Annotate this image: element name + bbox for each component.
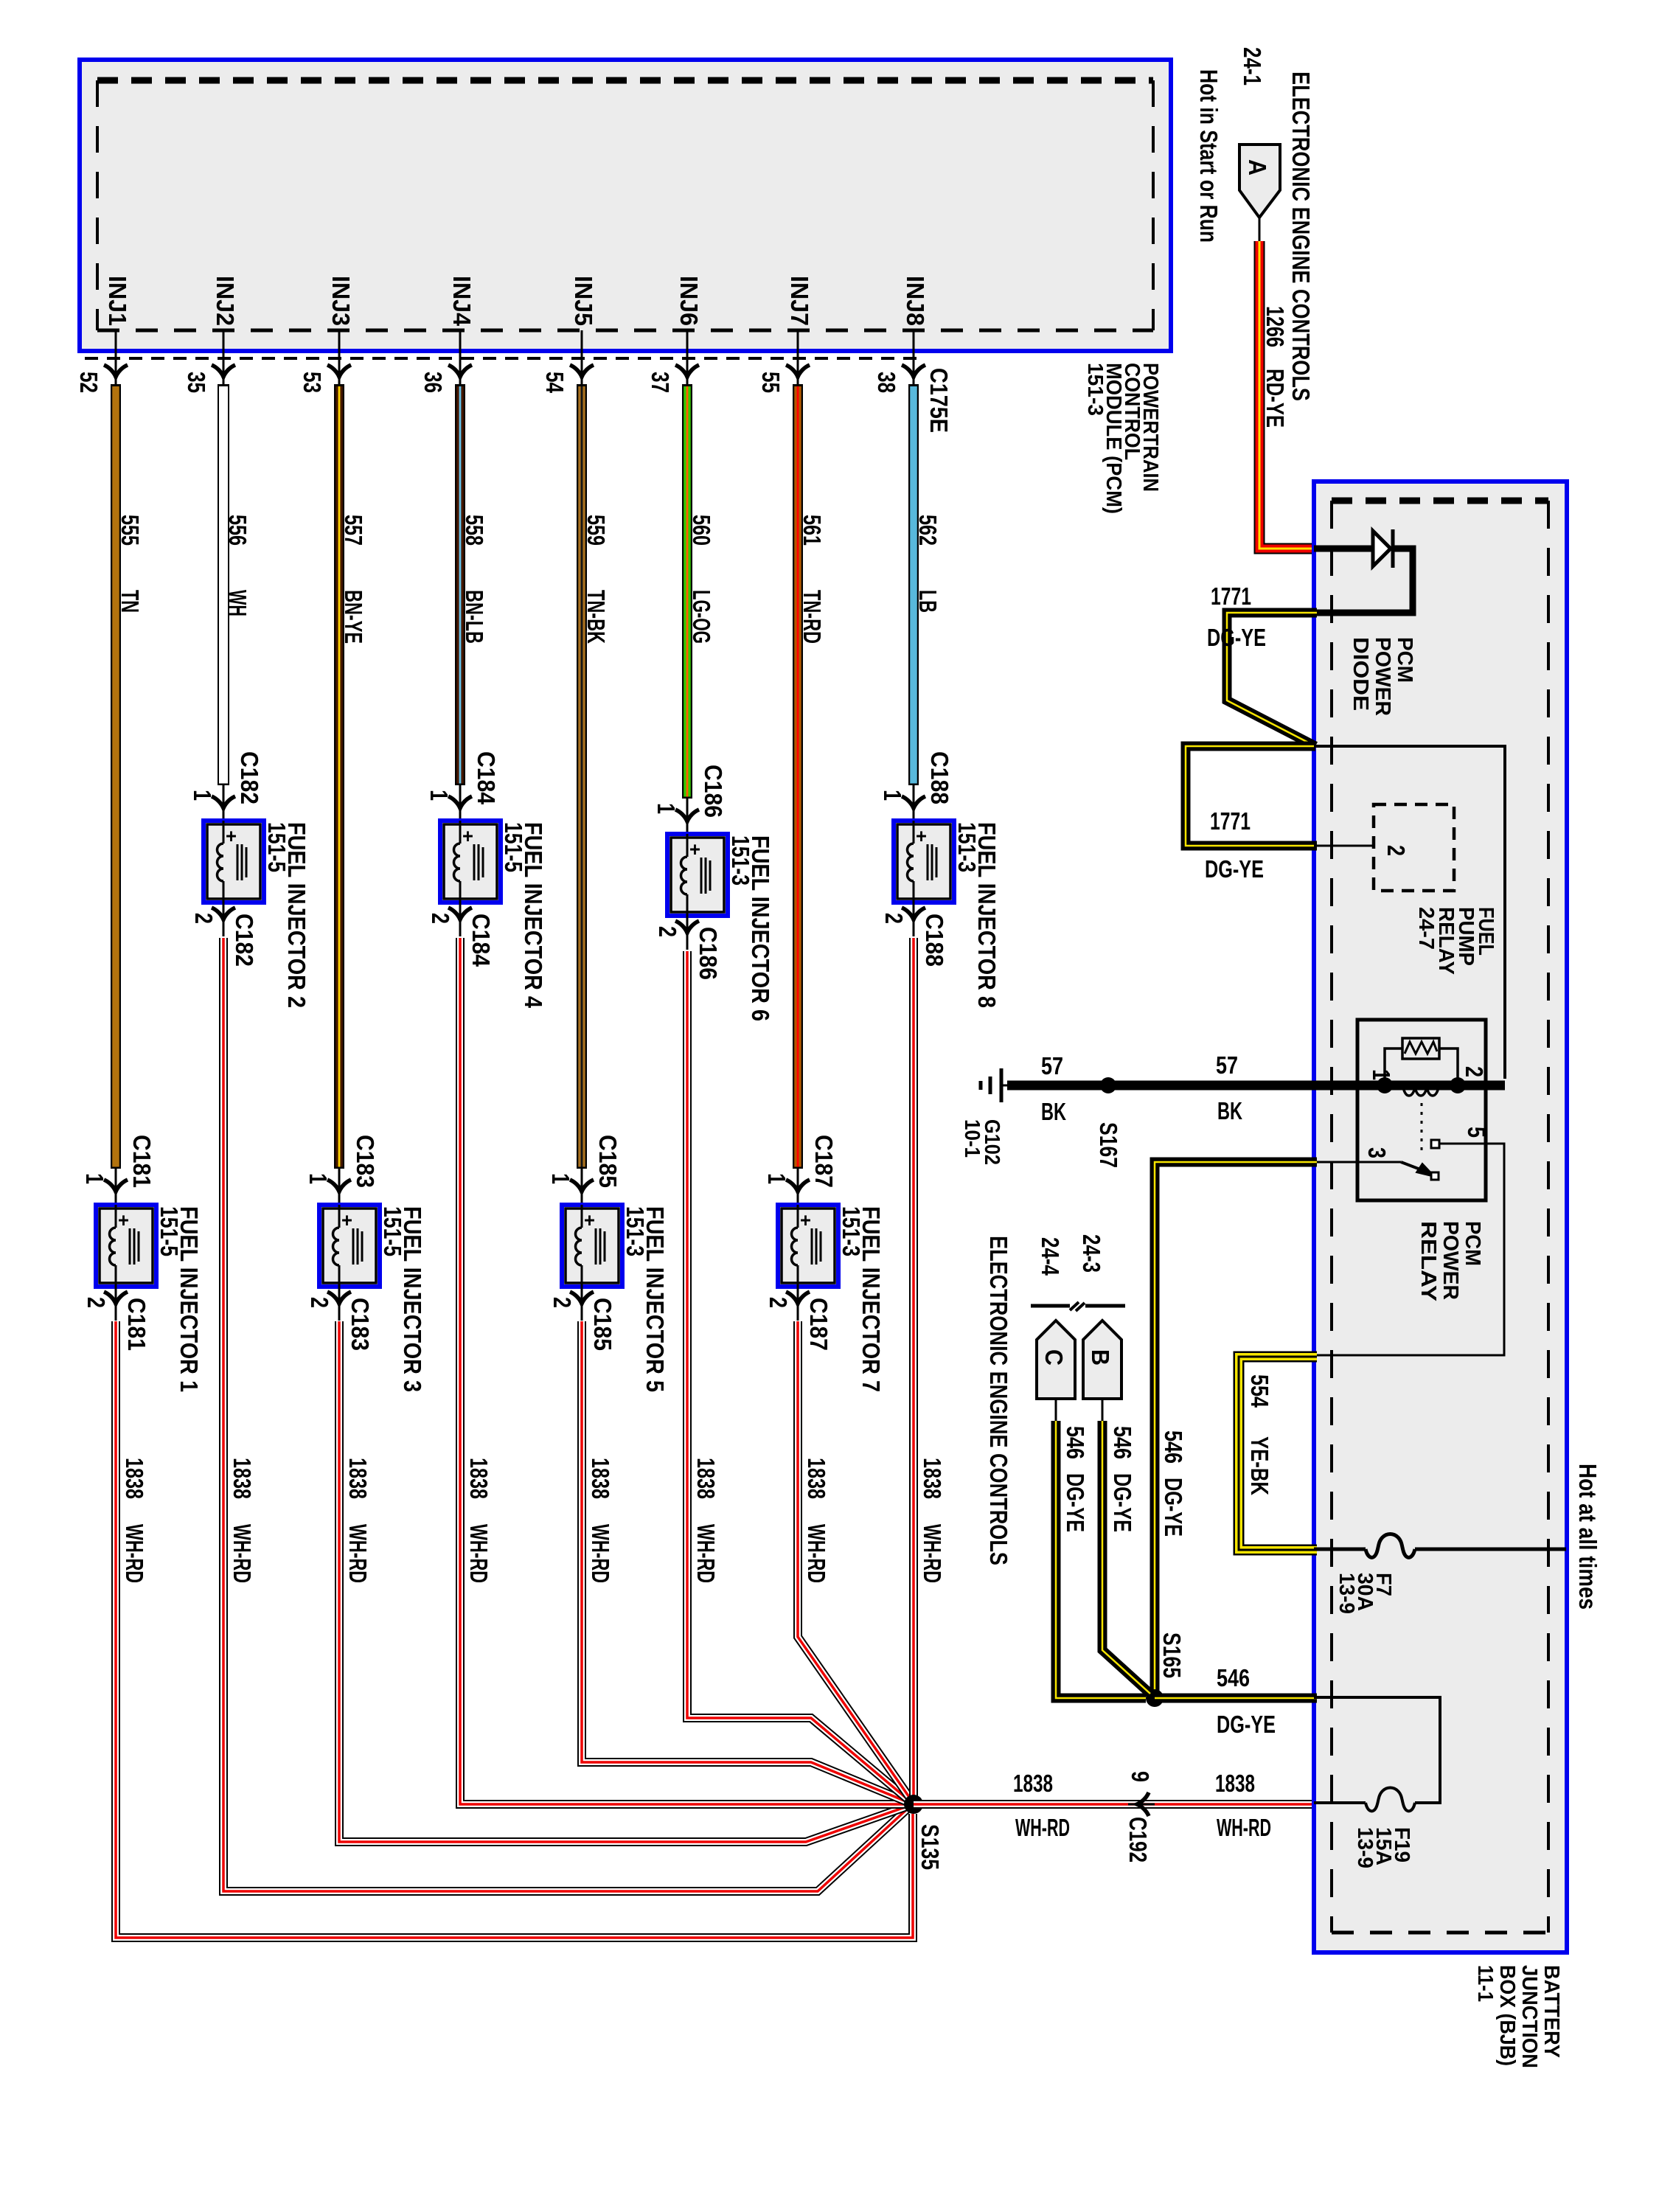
- PCM pin 36 stub line and connector arrow C175E pin 36: [459, 330, 462, 386]
- connector C188 pin 1 arrow: [913, 785, 915, 821]
- svg-text:546: 546: [1062, 1426, 1089, 1459]
- svg-text:JUNCTION: JUNCTION: [1517, 1965, 1541, 2068]
- wire 1838 WH-RD (fuel injector 4 return to splice S135): [460, 938, 908, 1804]
- svg-text:C182: C182: [236, 751, 263, 804]
- svg-text:52: 52: [75, 372, 102, 393]
- PCM power relay box: [1357, 1020, 1486, 1200]
- svg-text:1838: 1838: [1013, 1770, 1053, 1797]
- svg-text:151-3: 151-3: [953, 822, 981, 872]
- svg-text:POWER: POWER: [1371, 637, 1394, 716]
- svg-text:DIODE: DIODE: [1349, 637, 1372, 711]
- svg-text:C: C: [1040, 1349, 1068, 1366]
- svg-text:+: +: [916, 825, 927, 847]
- svg-text:151-3: 151-3: [1083, 363, 1107, 416]
- svg-text:C182: C182: [231, 914, 258, 967]
- svg-text:C185: C185: [589, 1298, 616, 1351]
- svg-text:151-3: 151-3: [838, 1206, 865, 1256]
- fuse F7 30A: [1314, 1548, 1366, 1551]
- splice S165: [1146, 1689, 1164, 1707]
- svg-text:5: 5: [1463, 1127, 1490, 1138]
- PCM pin 52 stub line and connector arrow C175E pin 52: [115, 330, 117, 386]
- wire 560 LG-OG (PCM INJ6 to fuel injector 6): [682, 384, 692, 799]
- svg-text:151-5: 151-5: [379, 1206, 406, 1256]
- wire 558 BN-LB (PCM INJ4 to fuel injector 4): [455, 384, 465, 785]
- wire 546 DG-YE (relay pin 3 to splice S165): [1155, 1162, 1317, 1698]
- fuel injector 4 (coil symbol): [440, 821, 501, 902]
- wire 1838 WH-RD (splice S135 to BJB fuse F19 via C192): [914, 1800, 1314, 1809]
- svg-text:C183: C183: [347, 1298, 374, 1351]
- PCM module box (POWERTRAIN CONTROL MODULE): [80, 60, 1171, 351]
- svg-text:2: 2: [83, 1297, 110, 1308]
- svg-text:1: 1: [189, 790, 216, 801]
- svg-text:1: 1: [425, 790, 453, 801]
- svg-text:9: 9: [1127, 1771, 1154, 1782]
- fuel pump relay (reference, dashed): [1374, 804, 1454, 891]
- svg-text:C187: C187: [810, 1135, 838, 1188]
- svg-text:S165: S165: [1158, 1632, 1186, 1678]
- fuel injector 3 (coil symbol): [319, 1205, 380, 1287]
- svg-text:560: 560: [688, 515, 715, 546]
- connector C184 pin 2 arrow: [459, 902, 462, 936]
- relay pin 5 wire to 554 feed: [1317, 1144, 1504, 1355]
- PCM pin 37 stub line and connector arrow C175E pin 37: [686, 330, 689, 386]
- svg-text:C175E: C175E: [925, 368, 953, 433]
- svg-text:TN: TN: [116, 590, 144, 613]
- svg-text:559: 559: [582, 515, 610, 546]
- ground G102: [1000, 1068, 1004, 1102]
- connector C182 pin 1 arrow: [223, 785, 225, 821]
- svg-text:WH-RD: WH-RD: [121, 1524, 148, 1583]
- fuel injector 1 (coil symbol): [96, 1205, 156, 1287]
- svg-text:546: 546: [1217, 1664, 1250, 1691]
- wire 556 WH (PCM INJ2 to fuel injector 2): [218, 384, 229, 785]
- wire 1266 RD-YE (connector A to PCM power diode): [1259, 241, 1317, 549]
- svg-text:562: 562: [914, 515, 942, 546]
- svg-text:1: 1: [305, 1173, 332, 1184]
- svg-text:2: 2: [765, 1297, 792, 1308]
- connector C185 pin 2 arrow: [581, 1287, 583, 1321]
- fuel pump relay pin 2 line: [1314, 845, 1374, 847]
- svg-text:+: +: [118, 1209, 129, 1231]
- svg-text:POWER: POWER: [1439, 1221, 1462, 1300]
- svg-text:PCM: PCM: [1393, 637, 1416, 683]
- svg-text:556: 556: [224, 515, 251, 546]
- svg-text:BK: BK: [1217, 1097, 1242, 1124]
- svg-text:555: 555: [116, 515, 144, 546]
- svg-text:INJ3: INJ3: [327, 276, 355, 326]
- svg-text:1838: 1838: [121, 1458, 148, 1499]
- wire 1838 WH-RD (fuel injector 2 return to splice S135): [223, 938, 908, 1891]
- connector C187 pin 2 arrow: [797, 1287, 799, 1321]
- svg-text:C184: C184: [473, 751, 500, 805]
- wire 1838 WH-RD (fuel injector 6 return to splice S135): [687, 951, 908, 1800]
- svg-text:3: 3: [1363, 1147, 1391, 1158]
- svg-text:INJ7: INJ7: [786, 276, 813, 326]
- PCM power relay coil junction pin 1 dot: [1377, 1077, 1393, 1093]
- svg-text:54: 54: [541, 372, 568, 394]
- svg-text:BATTERY: BATTERY: [1540, 1965, 1563, 2058]
- svg-text:WH-RD: WH-RD: [587, 1524, 614, 1583]
- wire 546 DG-YE (splice S165 to fuse F19): [1155, 1694, 1317, 1703]
- svg-text:ELECTRONIC ENGINE CONTROLS: ELECTRONIC ENGINE CONTROLS: [1287, 72, 1315, 401]
- svg-text:557: 557: [340, 515, 367, 546]
- svg-text:DG-YE: DG-YE: [1207, 624, 1266, 651]
- svg-text:TN-BK: TN-BK: [582, 590, 610, 644]
- svg-text:WH-RD: WH-RD: [803, 1524, 830, 1583]
- wire 1771 DG-YE (diode to BJB, first loop): [1227, 613, 1317, 746]
- wire 555 TN (PCM INJ1 to fuel injector 1): [111, 384, 121, 1169]
- svg-text:WH-RD: WH-RD: [229, 1524, 256, 1583]
- svg-text:ELECTRONIC ENGINE CONTROLS: ELECTRONIC ENGINE CONTROLS: [985, 1236, 1012, 1565]
- svg-text:55: 55: [757, 372, 785, 393]
- fuel injector 8 (coil symbol): [894, 821, 954, 902]
- relay switch pin 5 contact: [1431, 1140, 1439, 1148]
- svg-text:RELAY: RELAY: [1416, 1221, 1440, 1301]
- wire 557 BN-YE (PCM INJ3 to fuel injector 3): [334, 384, 344, 1169]
- svg-text:13-9: 13-9: [1353, 1827, 1377, 1868]
- svg-text:1266: 1266: [1262, 306, 1289, 347]
- svg-text:151-3: 151-3: [622, 1206, 649, 1256]
- svg-text:Hot at all times: Hot at all times: [1574, 1464, 1601, 1610]
- svg-text:24-1: 24-1: [1239, 47, 1266, 86]
- svg-text:151-5: 151-5: [156, 1206, 183, 1256]
- svg-text:1838: 1838: [344, 1458, 372, 1499]
- svg-text:INJ1: INJ1: [104, 276, 131, 326]
- fuel injector 5 (coil symbol): [562, 1205, 622, 1287]
- svg-text:24-4: 24-4: [1037, 1237, 1064, 1276]
- PCM pin 35 stub line and connector arrow C175E pin 35: [223, 330, 225, 386]
- svg-text:A: A: [1244, 159, 1271, 175]
- svg-text:DG-YE: DG-YE: [1109, 1473, 1136, 1532]
- svg-text:DG-YE: DG-YE: [1062, 1473, 1089, 1532]
- svg-text:RD-YE: RD-YE: [1262, 369, 1289, 428]
- connector C187 pin 1 arrow: [797, 1169, 799, 1205]
- PCM pin 55 stub line and connector arrow C175E pin 55: [797, 330, 799, 386]
- svg-text:1: 1: [81, 1173, 108, 1184]
- svg-text:+: +: [462, 825, 473, 847]
- wire 1771 DG-YE (second loop to fuel pump relay): [1186, 746, 1317, 846]
- svg-text:+: +: [584, 1209, 595, 1231]
- PCM pin 53 stub line and connector arrow C175E pin 53: [338, 330, 341, 386]
- svg-text:BN-YE: BN-YE: [340, 590, 367, 644]
- svg-text:+: +: [226, 825, 237, 847]
- svg-text:35: 35: [183, 372, 210, 393]
- svg-text:1771: 1771: [1211, 582, 1251, 610]
- svg-text:1838: 1838: [587, 1458, 614, 1499]
- svg-text:1: 1: [879, 790, 906, 801]
- svg-text:C187: C187: [805, 1298, 832, 1351]
- fuel injector 7 (coil symbol): [778, 1205, 838, 1287]
- svg-text:C186: C186: [700, 765, 727, 818]
- wire stub from connector A: [1259, 218, 1261, 241]
- bracket over connectors B and C: [1031, 1304, 1070, 1308]
- svg-text:1838: 1838: [465, 1458, 493, 1499]
- wire 1838 WH-RD (fuel injector 5 return to splice S135): [582, 1321, 908, 1802]
- svg-text:11-1: 11-1: [1473, 1965, 1497, 2002]
- svg-text:C188: C188: [926, 751, 953, 804]
- svg-text:24-3: 24-3: [1078, 1234, 1105, 1273]
- svg-text:DG-YE: DG-YE: [1160, 1478, 1187, 1537]
- connector C181 pin 2 arrow: [115, 1287, 117, 1321]
- svg-text:WH-RD: WH-RD: [1015, 1814, 1070, 1841]
- svg-text:2: 2: [190, 913, 218, 924]
- relay switch arm (pin 3): [1314, 1161, 1401, 1164]
- svg-text:561: 561: [799, 515, 826, 546]
- svg-text:C185: C185: [594, 1135, 622, 1188]
- svg-text:10-1: 10-1: [960, 1119, 984, 1158]
- PCM power diode D1: [1314, 546, 1373, 552]
- splice S167: [1100, 1077, 1116, 1093]
- svg-text:1838: 1838: [803, 1458, 830, 1499]
- svg-text:13-9: 13-9: [1335, 1573, 1358, 1614]
- svg-text:WH: WH: [224, 590, 251, 616]
- svg-text:BOX (BJB): BOX (BJB): [1495, 1965, 1519, 2066]
- connector C181 pin 1 arrow: [115, 1169, 117, 1205]
- connector A (from Electronic Engine Controls): [1239, 145, 1280, 218]
- PCM pin 54 stub line and connector arrow C175E pin 54: [581, 330, 583, 386]
- svg-text:WH-RD: WH-RD: [465, 1524, 493, 1583]
- wire 1838 WH-RD (fuel injector 8 return to splice S135): [909, 938, 918, 1804]
- svg-text:1838: 1838: [229, 1458, 256, 1499]
- svg-text:INJ2: INJ2: [212, 276, 239, 326]
- svg-text:1: 1: [763, 1173, 790, 1184]
- PCM power relay coil (inductor): [1403, 1085, 1439, 1096]
- svg-text:1838: 1838: [919, 1458, 946, 1499]
- wire inside BJB from diode return to PCM power relay coil: [1314, 746, 1505, 1079]
- wire 57 BK (ground G102 to PCM power relay coil): [1007, 1081, 1505, 1091]
- svg-text:C188: C188: [921, 914, 948, 967]
- inline connector C192 arrow: [1128, 1804, 1155, 1806]
- connector C186 pin 2 arrow: [686, 916, 689, 950]
- svg-text:LB: LB: [914, 590, 942, 613]
- svg-text:24-7: 24-7: [1414, 907, 1438, 950]
- wire 562 LB (PCM INJ8 to fuel injector 8): [908, 384, 919, 785]
- svg-text:36: 36: [420, 372, 447, 393]
- svg-text:546: 546: [1109, 1426, 1136, 1459]
- wire 1838 WH-RD (fuel injector 1 return to splice S135): [116, 1321, 913, 1938]
- svg-text:2: 2: [1382, 845, 1410, 856]
- relay actuation dotted link: [1421, 1103, 1423, 1155]
- PCM power relay coil junction pin 2 dot: [1450, 1077, 1466, 1093]
- connector C182 pin 2 arrow: [223, 902, 225, 936]
- svg-text:1: 1: [1368, 1069, 1395, 1080]
- svg-text:1838: 1838: [692, 1458, 720, 1499]
- PCM pin 38 stub line and connector arrow C175E pin 38: [913, 330, 915, 386]
- svg-text:PCM: PCM: [1461, 1221, 1484, 1266]
- svg-text:2: 2: [549, 1297, 576, 1308]
- svg-text:BK: BK: [1041, 1098, 1066, 1125]
- svg-text:1771: 1771: [1210, 807, 1251, 835]
- svg-text:C181: C181: [123, 1298, 150, 1351]
- wire 561 TN-RD (PCM INJ7 to fuel injector 7): [793, 384, 803, 1169]
- svg-text:BN-LB: BN-LB: [461, 590, 488, 644]
- svg-text:WH-RD: WH-RD: [919, 1524, 946, 1583]
- wire 554 YE-BK (relay pin 5 to fuse F7): [1239, 1357, 1317, 1550]
- PCM power relay suppression resistor: [1402, 1038, 1439, 1059]
- svg-text:WH-RD: WH-RD: [1217, 1814, 1271, 1841]
- wire 1838 WH-RD (fuel injector 3 return to splice S135): [339, 1321, 907, 1842]
- svg-text:2: 2: [654, 926, 681, 937]
- svg-text:57: 57: [1216, 1051, 1238, 1079]
- svg-text:2: 2: [306, 1297, 333, 1308]
- svg-text:INJ5: INJ5: [570, 276, 597, 326]
- connector C186 pin 1 arrow: [686, 799, 689, 834]
- Battery Junction Box (BJB): [1314, 481, 1567, 1952]
- svg-text:1: 1: [653, 803, 680, 814]
- svg-text:558: 558: [461, 515, 488, 546]
- connector C (to Electronic Engine Controls): [1037, 1321, 1075, 1399]
- svg-text:C183: C183: [352, 1135, 379, 1188]
- svg-text:2: 2: [1461, 1066, 1488, 1077]
- svg-text:TN-RD: TN-RD: [799, 590, 826, 644]
- svg-text:C181: C181: [128, 1135, 156, 1188]
- svg-text:+: +: [800, 1209, 811, 1231]
- svg-text:546: 546: [1160, 1430, 1187, 1464]
- svg-text:WH-RD: WH-RD: [344, 1524, 372, 1583]
- svg-text:2: 2: [427, 913, 454, 924]
- PCM connector C175E dashed line: [85, 357, 918, 360]
- svg-text:Hot in Start or Run: Hot in Start or Run: [1195, 69, 1222, 243]
- svg-text:+: +: [341, 1209, 352, 1231]
- wire 546 DG-YE (connector C to splice S165): [1056, 1421, 1146, 1698]
- fuel injector 2 (coil symbol): [204, 821, 264, 902]
- wire 546 DG-YE (connector B to splice S165): [1102, 1421, 1150, 1694]
- svg-text:2: 2: [880, 913, 908, 924]
- connector C184 pin 1 arrow: [459, 785, 462, 821]
- svg-text:53: 53: [299, 372, 326, 393]
- svg-text:37: 37: [647, 372, 674, 393]
- connector C183 pin 2 arrow: [338, 1287, 341, 1321]
- svg-text:DG-YE: DG-YE: [1217, 1711, 1276, 1738]
- svg-text:+: +: [689, 838, 700, 860]
- svg-text:C192: C192: [1124, 1817, 1152, 1863]
- svg-text:YE-BK: YE-BK: [1246, 1436, 1273, 1495]
- svg-text:INJ8: INJ8: [902, 276, 929, 326]
- svg-text:554: 554: [1246, 1374, 1273, 1408]
- svg-text:151-5: 151-5: [500, 822, 527, 872]
- fuse F19 15A: [1314, 1697, 1440, 1803]
- svg-text:DG-YE: DG-YE: [1205, 855, 1264, 883]
- wire 1838 WH-RD (fuel injector 7 return to splice S135): [798, 1321, 911, 1799]
- svg-text:INJ4: INJ4: [448, 276, 476, 327]
- fuel injector 6 (coil symbol): [667, 834, 728, 916]
- connector C183 pin 1 arrow: [338, 1169, 341, 1205]
- svg-text:LG-OG: LG-OG: [688, 590, 715, 644]
- svg-text:C186: C186: [695, 927, 722, 980]
- svg-text:151-3: 151-3: [727, 835, 754, 886]
- svg-text:C184: C184: [467, 914, 495, 967]
- svg-text:38: 38: [873, 372, 900, 393]
- svg-text:S135: S135: [917, 1824, 944, 1870]
- svg-text:B: B: [1087, 1349, 1114, 1366]
- svg-text:INJ6: INJ6: [675, 276, 703, 326]
- svg-text:151-5: 151-5: [263, 822, 291, 872]
- connector B (to Electronic Engine Controls): [1083, 1321, 1121, 1399]
- connector C185 pin 1 arrow: [581, 1169, 583, 1205]
- connector C188 pin 2 arrow: [913, 902, 915, 936]
- svg-text:57: 57: [1041, 1052, 1063, 1079]
- splice S135: [904, 1795, 923, 1814]
- svg-text:WH-RD: WH-RD: [692, 1524, 720, 1583]
- svg-text:1838: 1838: [1215, 1770, 1255, 1797]
- svg-text:1: 1: [547, 1173, 574, 1184]
- svg-text:S167: S167: [1095, 1122, 1122, 1168]
- wire 559 TN-BK (PCM INJ5 to fuel injector 5): [577, 384, 587, 1169]
